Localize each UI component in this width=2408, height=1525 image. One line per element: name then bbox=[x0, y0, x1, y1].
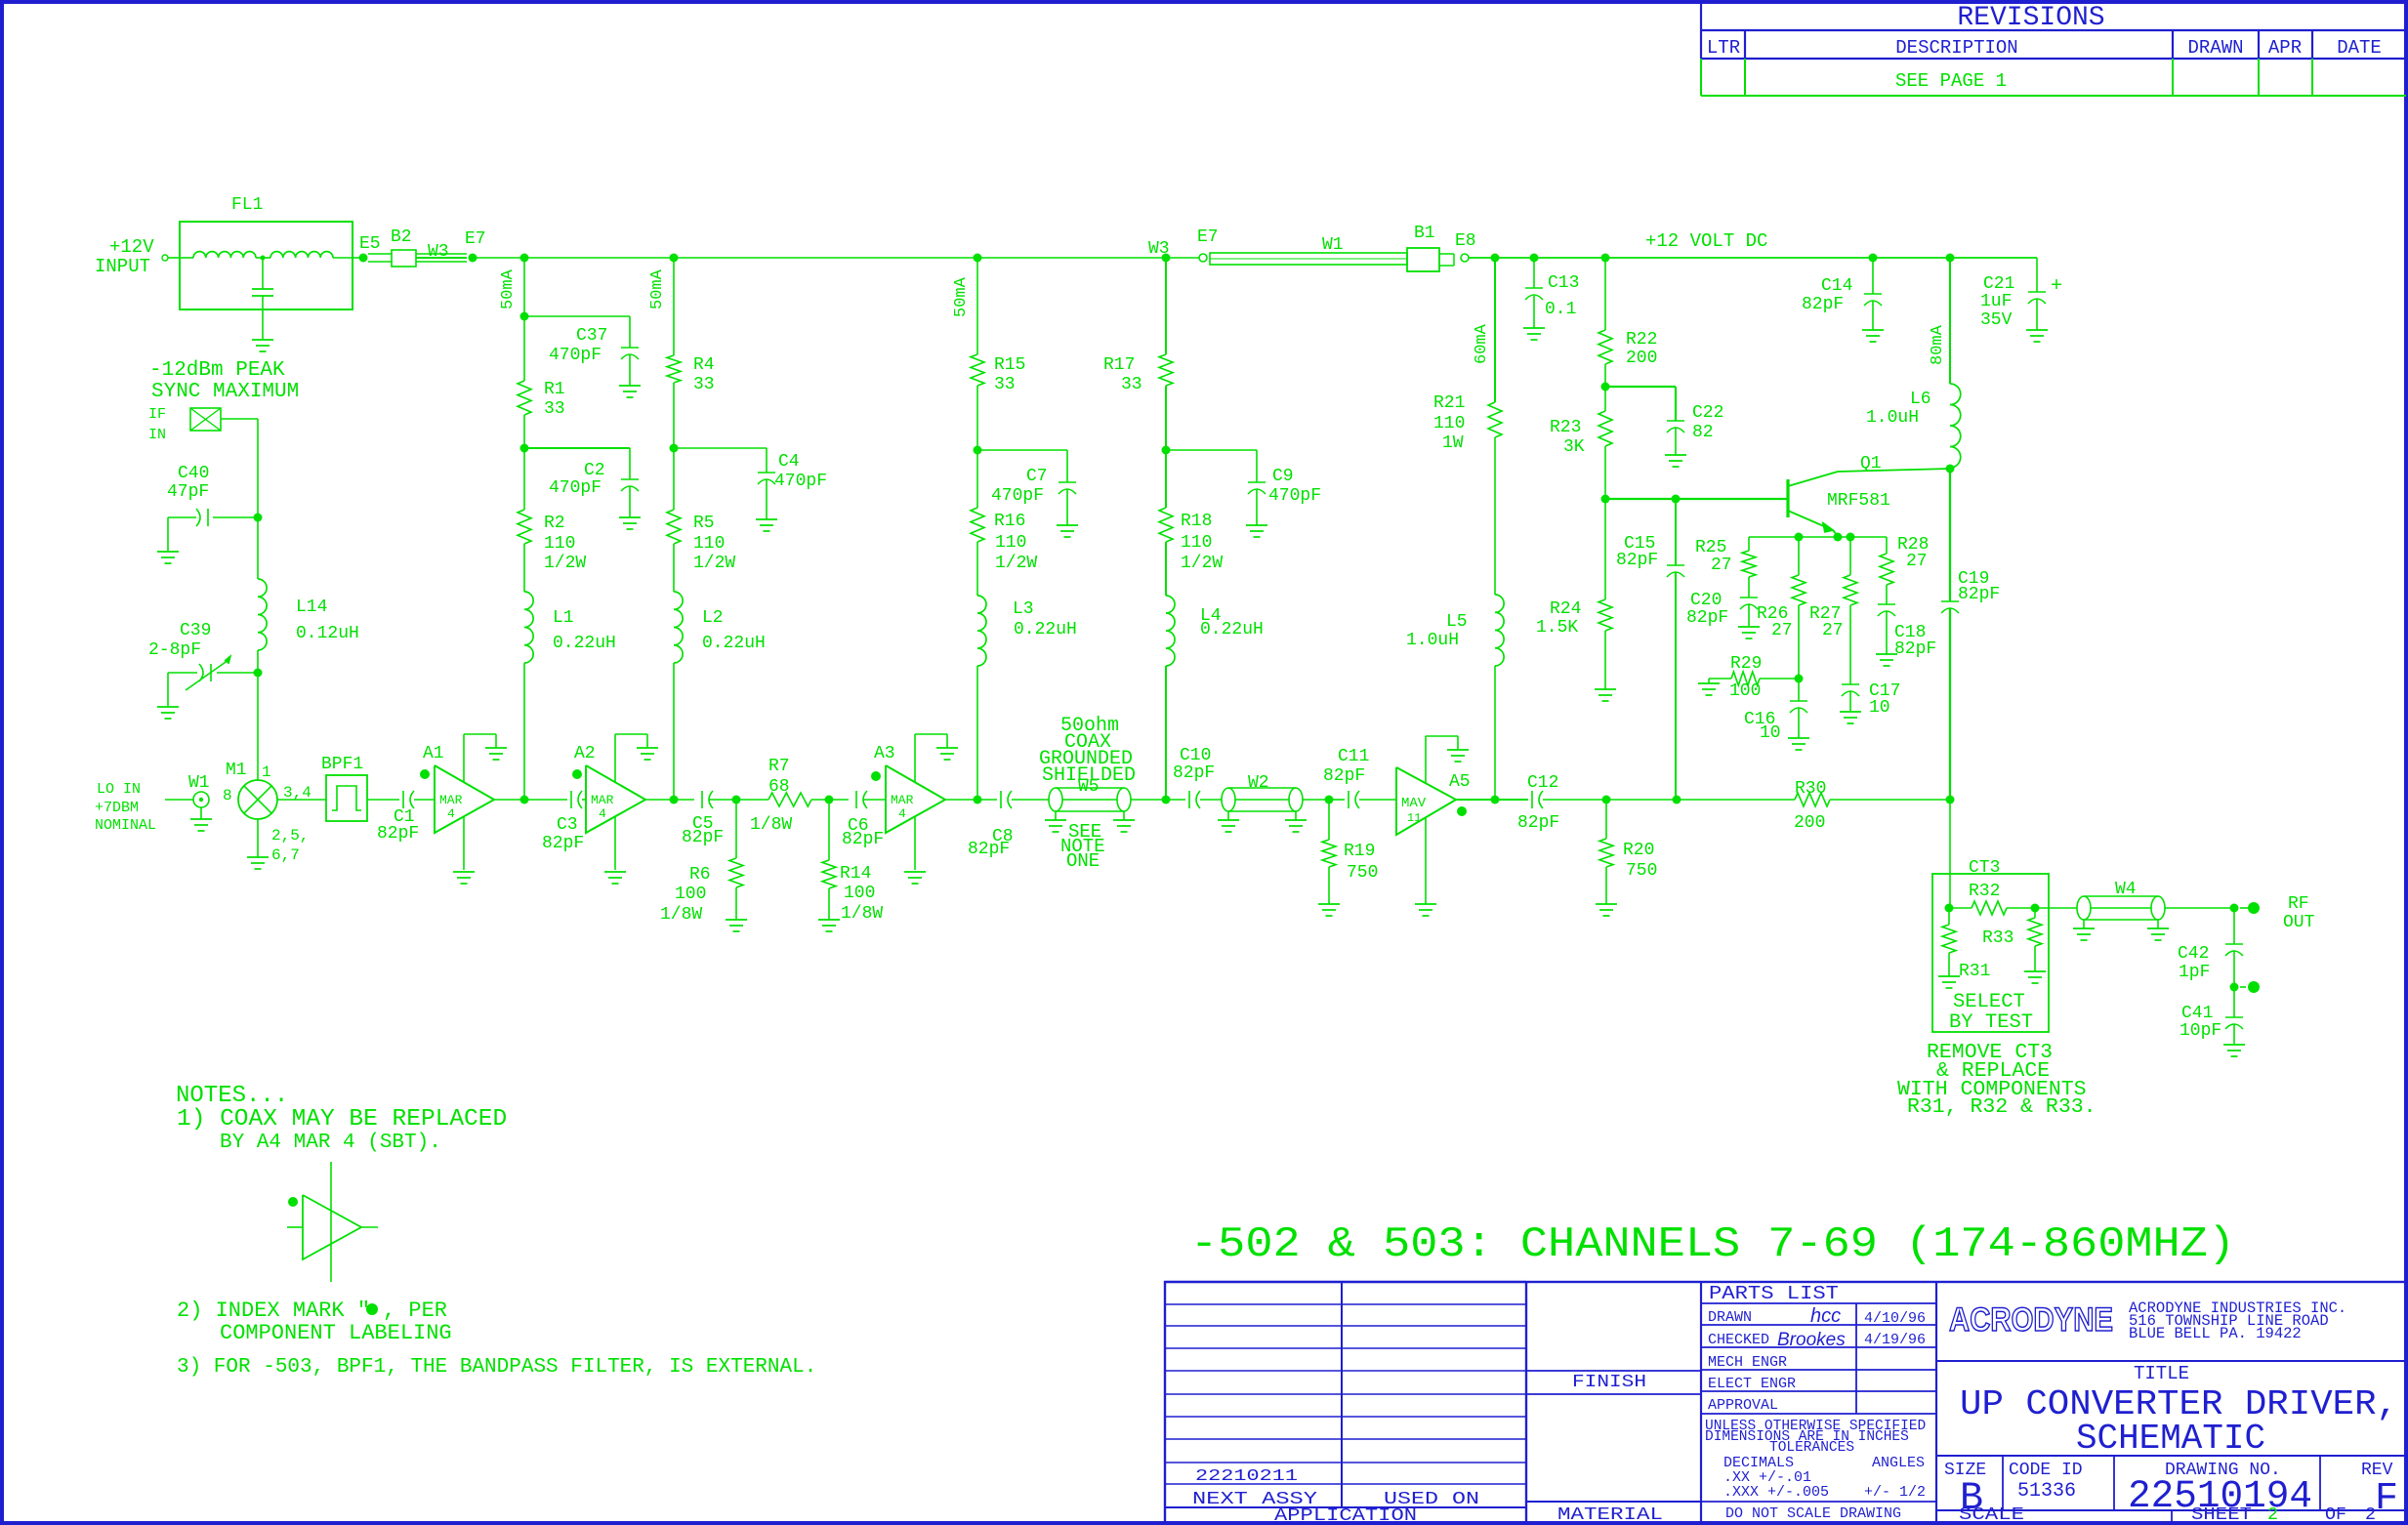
wire to C8 bbox=[977, 799, 997, 801]
svg-text:CODE ID: CODE ID bbox=[2009, 1461, 2083, 1480]
svg-text:470pF: 470pF bbox=[991, 486, 1044, 506]
wire A1 output bbox=[494, 799, 524, 801]
inductor L4 0.22uH bbox=[1166, 596, 1175, 666]
junction C15 bottom bbox=[1673, 796, 1681, 804]
junction base node bbox=[1601, 495, 1610, 504]
svg-text:MAR: MAR bbox=[439, 793, 463, 807]
svg-text:10: 10 bbox=[1760, 723, 1781, 743]
svg-text:ONE: ONE bbox=[1066, 850, 1100, 872]
svg-text:DO NOT SCALE DRAWING: DO NOT SCALE DRAWING bbox=[1725, 1505, 1901, 1522]
svg-text:FL1: FL1 bbox=[231, 195, 263, 215]
wire R26 to R29 node bbox=[1798, 605, 1800, 679]
svg-text:100: 100 bbox=[675, 885, 706, 904]
svg-text:C7: C7 bbox=[1026, 467, 1048, 486]
wire to C11 bbox=[1329, 799, 1345, 801]
wire R24 to ground bbox=[1604, 631, 1606, 689]
svg-text:C21: C21 bbox=[1983, 274, 2014, 294]
wire W2 to R19 node bbox=[1303, 799, 1329, 801]
svg-text:TITLE: TITLE bbox=[2134, 1363, 2189, 1384]
svg-text:2) INDEX MARK ": 2) INDEX MARK " bbox=[177, 1298, 370, 1323]
junction C15 tap bbox=[1672, 495, 1681, 504]
inductor L3 0.22uH bbox=[977, 596, 986, 666]
svg-text:BLUE BELL PA. 19422: BLUE BELL PA. 19422 bbox=[2129, 1325, 2302, 1342]
svg-text:C9: C9 bbox=[1272, 467, 1294, 486]
svg-text:110: 110 bbox=[544, 534, 575, 554]
svg-text:2: 2 bbox=[2365, 1505, 2376, 1525]
wire R2 to L1 bbox=[523, 544, 525, 592]
svg-text:NOTES...: NOTES... bbox=[176, 1083, 288, 1109]
svg-text:+7DBM: +7DBM bbox=[95, 800, 139, 816]
junction A1 out bbox=[520, 796, 529, 804]
svg-text:R4: R4 bbox=[693, 355, 715, 375]
svg-text:4: 4 bbox=[599, 806, 606, 821]
wire R4 to C4 tee bbox=[673, 383, 675, 510]
resistor R1 33 bbox=[518, 381, 531, 415]
svg-text:SCHEMATIC: SCHEMATIC bbox=[2076, 1419, 2265, 1459]
scale sheet row bbox=[2171, 1510, 2173, 1523]
capacitor C13 0.1 bbox=[1533, 258, 1535, 288]
svg-text:OUT: OUT bbox=[2283, 913, 2315, 932]
resistor R5 110 1/2W bbox=[667, 510, 681, 544]
svg-text:LO IN: LO IN bbox=[97, 781, 141, 798]
wire C39 node to mixer bbox=[257, 673, 259, 780]
wire A3 output bbox=[945, 799, 977, 801]
wire BPF1 to C1 bbox=[367, 799, 399, 801]
svg-text:MATERIAL: MATERIAL bbox=[1557, 1505, 1663, 1525]
svg-text:MAV: MAV bbox=[1401, 796, 1427, 811]
wire C5 to R6 node bbox=[709, 799, 736, 801]
wire L2 to signal bbox=[673, 663, 675, 800]
svg-text:SEE PAGE 1: SEE PAGE 1 bbox=[1895, 70, 2007, 92]
wire to C6 bbox=[829, 799, 849, 801]
svg-text:ELECT ENGR: ELECT ENGR bbox=[1708, 1376, 1796, 1392]
capacitor C7 470pF bbox=[977, 449, 1067, 451]
svg-text:2: 2 bbox=[2267, 1505, 2278, 1525]
junction C41 node bbox=[2230, 983, 2239, 992]
svg-text:200: 200 bbox=[1626, 349, 1657, 368]
svg-text:200: 200 bbox=[1794, 813, 1825, 833]
wire base line bbox=[1605, 498, 1787, 500]
svg-text:C41: C41 bbox=[2181, 1004, 2213, 1023]
capacitor C9 470pF bbox=[1166, 449, 1257, 451]
svg-text:1: 1 bbox=[262, 763, 271, 781]
svg-text:4: 4 bbox=[447, 806, 455, 821]
svg-text:22210211: 22210211 bbox=[1195, 1467, 1298, 1486]
svg-text:1/2W: 1/2W bbox=[1181, 554, 1223, 573]
svg-text:A5: A5 bbox=[1449, 772, 1471, 792]
svg-text:R5: R5 bbox=[693, 514, 715, 533]
svg-text:82pF: 82pF bbox=[682, 828, 724, 847]
svg-text:R14: R14 bbox=[840, 864, 871, 884]
svg-text:E8: E8 bbox=[1455, 231, 1476, 251]
wire R1 to C2 tee bbox=[523, 415, 525, 510]
wire C12 to R20 node bbox=[1543, 799, 1606, 801]
svg-text:0.22uH: 0.22uH bbox=[702, 634, 766, 653]
application block grid bbox=[1165, 1281, 1526, 1283]
svg-text:RF: RF bbox=[2288, 894, 2309, 914]
junction CT3 node bbox=[1945, 904, 1954, 913]
svg-text:4: 4 bbox=[898, 806, 906, 821]
resistor R28 27 bbox=[1886, 537, 1888, 554]
capacitor C2 470pF bbox=[524, 447, 630, 449]
capacitor C5 82pF bbox=[701, 791, 703, 808]
capacitor C11 82pF bbox=[1348, 791, 1349, 808]
svg-text:DATE: DATE bbox=[2337, 37, 2382, 59]
junction C9 tee bbox=[1162, 446, 1171, 455]
capacitor C6 82pF bbox=[855, 791, 857, 808]
svg-text:TOLERANCES: TOLERANCES bbox=[1769, 1440, 1854, 1456]
svg-text:1W: 1W bbox=[1442, 433, 1464, 453]
wire IF IN to C40 node bbox=[221, 418, 258, 420]
svg-text:ACRODYNE: ACRODYNE bbox=[1949, 1301, 2113, 1339]
wire C3 to A2 bbox=[582, 799, 586, 801]
capacitor C10 82pF bbox=[1188, 791, 1190, 808]
svg-text:MAR: MAR bbox=[591, 793, 614, 807]
junction C40 node bbox=[254, 514, 263, 522]
svg-text:REVISIONS: REVISIONS bbox=[1957, 3, 2104, 33]
svg-text:82pF: 82pF bbox=[377, 824, 419, 844]
wire +12 VOLT DC rail bbox=[1469, 257, 2037, 259]
svg-text:OF: OF bbox=[2325, 1505, 2346, 1525]
svg-text:R15: R15 bbox=[994, 355, 1025, 375]
capacitor C40 47pF bbox=[213, 516, 258, 518]
svg-text:ANGLES: ANGLES bbox=[1872, 1455, 1925, 1471]
inductor L1 0.22uH bbox=[524, 592, 533, 663]
svg-text:L2: L2 bbox=[702, 608, 724, 628]
svg-text:R32: R32 bbox=[1969, 882, 2000, 901]
svg-text:33: 33 bbox=[994, 375, 1016, 394]
svg-text:60mA: 60mA bbox=[1473, 323, 1491, 364]
svg-text:FINISH: FINISH bbox=[1572, 1373, 1646, 1392]
junction C7 tee bbox=[974, 446, 982, 455]
junction R22/R23 node bbox=[1601, 383, 1610, 392]
svg-text:33: 33 bbox=[1121, 375, 1142, 394]
svg-text:100: 100 bbox=[1729, 681, 1761, 701]
FL1 internal capacitor bbox=[262, 258, 264, 289]
svg-text:C10: C10 bbox=[1180, 746, 1211, 765]
capacitor C22 82 bbox=[1605, 386, 1676, 388]
junction C13 bbox=[1530, 254, 1539, 263]
svg-text:C42: C42 bbox=[2178, 944, 2209, 964]
svg-text:10pF: 10pF bbox=[2180, 1021, 2221, 1041]
junction rail chain1 bbox=[520, 254, 529, 263]
svg-text:SCALE: SCALE bbox=[1959, 1505, 2024, 1525]
wire chain2 upper bbox=[673, 258, 675, 355]
svg-text:0.22uH: 0.22uH bbox=[1014, 620, 1077, 639]
svg-text:W5: W5 bbox=[1078, 777, 1100, 797]
svg-text:+: + bbox=[2051, 275, 2062, 298]
svg-text:27: 27 bbox=[1906, 552, 1928, 571]
svg-text:110: 110 bbox=[995, 533, 1026, 553]
wire CT3 to W4 bbox=[2035, 907, 2077, 909]
resistor R22 200 bbox=[1598, 330, 1612, 364]
capacitor C21 1uF 35V bbox=[2036, 258, 2038, 292]
svg-text:3) FOR -503, BPF1, THE BANDPAS: 3) FOR -503, BPF1, THE BANDPASS FILTER, … bbox=[177, 1356, 816, 1379]
wire FL1 to E5 bbox=[353, 257, 359, 259]
svg-text:CHECKED: CHECKED bbox=[1708, 1332, 1769, 1348]
svg-text:+12V: +12V bbox=[109, 236, 154, 258]
capacitor C3 82pF bbox=[570, 791, 572, 808]
finish material column bbox=[1700, 1282, 1702, 1523]
svg-text:L5: L5 bbox=[1446, 612, 1468, 632]
wire A2 output bbox=[645, 799, 674, 801]
svg-text:1.0uH: 1.0uH bbox=[1866, 408, 1919, 428]
resistor R32 bbox=[1949, 907, 1972, 909]
svg-text:B1: B1 bbox=[1414, 224, 1435, 243]
svg-text:82pF: 82pF bbox=[1894, 639, 1936, 659]
wire to C5 bbox=[674, 799, 694, 801]
capacitor C41 10pF bbox=[2233, 987, 2235, 1017]
resistor R19 750 bbox=[1328, 800, 1330, 840]
svg-text:M1: M1 bbox=[226, 761, 247, 780]
svg-text:3K: 3K bbox=[1563, 437, 1585, 457]
svg-text:+/- 1/2: +/- 1/2 bbox=[1864, 1484, 1926, 1501]
capacitor C15 82pF bbox=[1675, 499, 1677, 565]
wire R18 to L4 bbox=[1165, 542, 1167, 596]
svg-text:R31, R32 & R33.: R31, R32 & R33. bbox=[1907, 1095, 2097, 1119]
svg-text:82pF: 82pF bbox=[1686, 608, 1728, 628]
svg-text:L3: L3 bbox=[1013, 599, 1034, 619]
svg-text:PARTS LIST: PARTS LIST bbox=[1709, 1283, 1839, 1304]
svg-text:R24: R24 bbox=[1550, 599, 1581, 619]
svg-text:W1: W1 bbox=[1322, 235, 1344, 255]
junction C39 node bbox=[257, 650, 259, 673]
svg-text:C39: C39 bbox=[180, 621, 211, 640]
svg-text:470pF: 470pF bbox=[549, 478, 602, 498]
svg-text:C3: C3 bbox=[557, 815, 578, 835]
svg-text:27: 27 bbox=[1771, 621, 1793, 640]
wire R5 to L2 bbox=[673, 544, 675, 592]
svg-text:82pF: 82pF bbox=[1323, 766, 1365, 786]
svg-text:0.22uH: 0.22uH bbox=[553, 634, 616, 653]
junction L4 bottom bbox=[1162, 796, 1171, 804]
svg-text:82pF: 82pF bbox=[968, 840, 1010, 859]
junction emitter nodes bbox=[1795, 533, 1804, 542]
wire C10 to W2 bbox=[1200, 799, 1222, 801]
resistor R14 100 1/8W bbox=[828, 800, 830, 860]
capacitor C37 470pF bbox=[524, 315, 630, 317]
resistor R21 110 1W bbox=[1488, 402, 1502, 437]
svg-text:50mA: 50mA bbox=[648, 268, 667, 309]
svg-text:A3: A3 bbox=[874, 744, 895, 763]
inductor L14 0.12uH bbox=[257, 517, 259, 579]
svg-text:82pF: 82pF bbox=[1802, 295, 1844, 314]
wire A5 output bbox=[1456, 799, 1495, 801]
svg-text:CT3: CT3 bbox=[1969, 858, 2000, 878]
svg-text:BY A4 MAR 4 (SBT).: BY A4 MAR 4 (SBT). bbox=[220, 1132, 441, 1154]
svg-text:750: 750 bbox=[1347, 863, 1378, 883]
junction C37 tee bbox=[520, 312, 529, 321]
svg-text:4/10/96: 4/10/96 bbox=[1864, 1310, 1926, 1327]
resistor R29 100 bbox=[1760, 678, 1799, 680]
capacitor C39 2-8pF variable bbox=[217, 672, 258, 674]
wire to C10 bbox=[1166, 799, 1185, 801]
capacitor C42 1pF bbox=[2233, 908, 2235, 944]
svg-text:35V: 35V bbox=[1980, 310, 2013, 330]
svg-text:1/2W: 1/2W bbox=[995, 554, 1037, 573]
svg-text:0.1: 0.1 bbox=[1545, 300, 1576, 319]
svg-text:27: 27 bbox=[1711, 556, 1732, 575]
svg-text:2,5,: 2,5, bbox=[271, 827, 309, 845]
FL1 ground bbox=[252, 339, 273, 341]
svg-text:A2: A2 bbox=[574, 744, 596, 763]
svg-text:4/19/96: 4/19/96 bbox=[1864, 1332, 1926, 1348]
svg-text:B2: B2 bbox=[391, 227, 412, 247]
svg-text:INPUT: INPUT bbox=[95, 256, 150, 277]
svg-text:R21: R21 bbox=[1433, 393, 1465, 413]
ground R24 bbox=[1595, 688, 1616, 690]
svg-text:DESCRIPTION: DESCRIPTION bbox=[1895, 37, 2017, 59]
capacitor C4 470pF bbox=[674, 447, 767, 449]
wire R22 to node bbox=[1604, 364, 1606, 411]
junction R29 node bbox=[1795, 675, 1804, 683]
svg-text:R30: R30 bbox=[1795, 779, 1826, 799]
svg-text:E7: E7 bbox=[465, 229, 486, 249]
wire W4 to RF OUT bbox=[2165, 907, 2234, 909]
svg-text:E5: E5 bbox=[359, 234, 381, 254]
wire chain4 upper bbox=[1165, 258, 1167, 354]
junction C4 tee bbox=[670, 444, 679, 453]
parts list block bbox=[1701, 1302, 1936, 1304]
wire LO input bbox=[165, 799, 193, 801]
svg-text:1/2W: 1/2W bbox=[544, 554, 586, 573]
junction rail chain2 bbox=[670, 254, 679, 263]
svg-text:Brookes: Brookes bbox=[1777, 1330, 1846, 1350]
svg-text:SYNC MAXIMUM: SYNC MAXIMUM bbox=[151, 381, 299, 403]
junction 80mA branch bbox=[1946, 254, 1955, 263]
wire R17 to C9 tee bbox=[1165, 386, 1167, 508]
junction R14 node bbox=[825, 796, 834, 804]
svg-text:hcc: hcc bbox=[1810, 1305, 1841, 1327]
wire R20 node to C15 node bbox=[1606, 799, 1677, 801]
svg-text:1/8W: 1/8W bbox=[660, 905, 702, 925]
svg-text:50mA: 50mA bbox=[499, 268, 518, 309]
svg-text:47pF: 47pF bbox=[167, 482, 209, 502]
svg-text:BPF1: BPF1 bbox=[321, 755, 363, 774]
svg-text:APR: APR bbox=[2268, 37, 2302, 59]
svg-text:L14: L14 bbox=[296, 598, 327, 617]
svg-text:82pF: 82pF bbox=[1517, 813, 1559, 833]
capacitor C8 82pF bbox=[1000, 791, 1002, 808]
wire chain1 upper bbox=[523, 258, 525, 381]
wire +12V rail left section bbox=[473, 257, 1166, 259]
svg-text:COMPONENT LABELING: COMPONENT LABELING bbox=[220, 1321, 452, 1345]
wire R16 to L3 bbox=[976, 542, 978, 596]
capacitor C16 10 bbox=[1798, 679, 1800, 701]
svg-text:110: 110 bbox=[693, 534, 725, 554]
svg-text:50mA: 50mA bbox=[952, 276, 971, 317]
revisions row SEE PAGE 1 bbox=[1700, 59, 1702, 96]
junction C42 node bbox=[2230, 904, 2239, 913]
svg-text:68: 68 bbox=[768, 777, 790, 797]
svg-text:10: 10 bbox=[1869, 698, 1890, 718]
junction R19 node bbox=[1325, 796, 1334, 804]
wire emitter bus bbox=[1749, 536, 1887, 538]
svg-text:C4: C4 bbox=[778, 452, 800, 472]
svg-text:C37: C37 bbox=[576, 326, 607, 346]
svg-text:C11: C11 bbox=[1338, 747, 1369, 766]
junction rail chain3 bbox=[974, 254, 982, 263]
svg-text:MRF581: MRF581 bbox=[1827, 491, 1890, 511]
svg-text:DRAWN: DRAWN bbox=[1708, 1309, 1752, 1326]
svg-text:SHEET: SHEET bbox=[2191, 1505, 2252, 1525]
capacitor C20 82pF bbox=[1748, 577, 1750, 598]
svg-text:MAR: MAR bbox=[891, 793, 914, 807]
junction C14 bbox=[1869, 254, 1878, 263]
svg-text:-502 & 503: CHANNELS 7-69 (174: -502 & 503: CHANNELS 7-69 (174-860MHZ) bbox=[1190, 1220, 2235, 1269]
svg-text:C13: C13 bbox=[1548, 273, 1579, 293]
junction Q1 collector bbox=[1946, 465, 1955, 474]
svg-text:C40: C40 bbox=[178, 464, 209, 483]
junction collector output bbox=[1946, 796, 1955, 804]
resistor R23 3K bbox=[1598, 411, 1612, 446]
svg-text:C2: C2 bbox=[584, 461, 605, 480]
wire chain3 upper bbox=[976, 258, 978, 354]
wire R22 top lead bbox=[1604, 258, 1606, 330]
svg-text:APPROVAL: APPROVAL bbox=[1708, 1397, 1778, 1414]
svg-text:R31: R31 bbox=[1959, 962, 1990, 981]
wire R21 to L5 bbox=[1494, 437, 1496, 595]
junction A5 out L5 bbox=[1491, 796, 1500, 804]
resistor R33 bbox=[2034, 908, 2036, 918]
svg-text:R23: R23 bbox=[1550, 418, 1581, 437]
resistor R16 110 1/2W bbox=[971, 508, 984, 542]
svg-text:1.5K: 1.5K bbox=[1536, 618, 1578, 638]
resistor R27 27 bbox=[1849, 537, 1851, 575]
wire C6 to A3 bbox=[863, 799, 886, 801]
svg-text:A1: A1 bbox=[423, 744, 444, 763]
note 2 amplifier symbol bbox=[330, 1162, 332, 1195]
junction 60mA branch bbox=[1491, 254, 1500, 263]
svg-text:BY TEST: BY TEST bbox=[1949, 1011, 2033, 1034]
svg-text:80mA: 80mA bbox=[1929, 324, 1947, 365]
size code id drawing no rev row bbox=[2002, 1456, 2004, 1510]
svg-text:DRAWN: DRAWN bbox=[2187, 37, 2243, 59]
junction A3 out bbox=[974, 796, 982, 804]
svg-text:F: F bbox=[2375, 1477, 2398, 1521]
svg-text:R16: R16 bbox=[994, 512, 1025, 531]
wire collector to CT3 bbox=[1949, 800, 1951, 908]
svg-text:IF: IF bbox=[148, 406, 166, 423]
svg-text:, PER: , PER bbox=[383, 1298, 447, 1323]
svg-text:1) COAX MAY BE REPLACED: 1) COAX MAY BE REPLACED bbox=[177, 1106, 507, 1133]
wire L1 to signal bbox=[523, 663, 525, 800]
svg-text:470pF: 470pF bbox=[1268, 486, 1321, 506]
svg-text:R1: R1 bbox=[544, 380, 565, 399]
wire to C3 bbox=[524, 799, 567, 801]
wire W5 to chain4 junction bbox=[1131, 799, 1166, 801]
resistor R15 33 bbox=[971, 354, 984, 386]
capacitor C1 82pF bbox=[402, 791, 404, 808]
svg-text:R25: R25 bbox=[1695, 538, 1726, 557]
wire L5 to signal bbox=[1494, 666, 1496, 800]
junction R33 node bbox=[2031, 904, 2040, 913]
svg-text:R2: R2 bbox=[544, 514, 565, 533]
svg-text:R33: R33 bbox=[1982, 928, 2014, 948]
resistor R18 110 1/2W bbox=[1159, 508, 1173, 542]
wire L3 to signal bbox=[976, 666, 978, 800]
svg-text:82pF: 82pF bbox=[842, 830, 884, 849]
junction A2 out bbox=[670, 796, 679, 804]
capacitor C19 82pF bbox=[1949, 469, 1951, 601]
svg-text:L6: L6 bbox=[1910, 390, 1931, 409]
svg-text:110: 110 bbox=[1433, 414, 1465, 433]
svg-text:R17: R17 bbox=[1103, 355, 1135, 375]
svg-text:C14: C14 bbox=[1821, 276, 1852, 296]
svg-text:SELECT: SELECT bbox=[1953, 991, 2025, 1013]
capacitor C12 82pF bbox=[1531, 791, 1533, 808]
svg-text:2-8pF: 2-8pF bbox=[148, 640, 201, 660]
